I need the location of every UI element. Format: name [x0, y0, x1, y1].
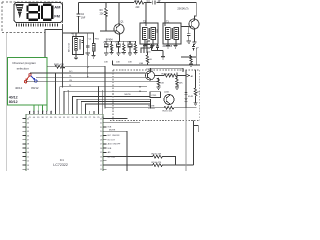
wire Q1 base	[100, 30, 116, 32]
ferrite bead FB1	[92, 44, 95, 52]
resistor R12	[190, 55, 192, 64]
resistor R106	[107, 164, 194, 167]
IC1 left pins	[23, 119, 26, 170]
wire Q2 source	[194, 29, 196, 42]
wire pin20	[107, 131, 128, 171]
svg-text:10K: 10K	[128, 62, 132, 64]
resistor R203	[155, 74, 187, 77]
svg-text:80/12: 80/12	[9, 100, 18, 104]
svg-text:LSB: LSB	[139, 63, 144, 65]
bus vertical dashed-border line	[62, 24, 64, 87]
svg-text:22K: 22K	[100, 13, 105, 15]
corner right top	[194, 126, 199, 133]
dashed display-section border top	[2, 1, 63, 3]
capacitor C6	[156, 44, 159, 51]
wire mute top links	[186, 70, 196, 88]
svg-text:1K: 1K	[197, 92, 200, 94]
transistor Q2	[177, 9, 199, 29]
bus junction dots	[87, 72, 88, 73]
LCD digit 8	[28, 5, 39, 20]
svg-text:LC72322: LC72322	[53, 163, 68, 167]
IC1 top pin names	[29, 111, 53, 114]
LCD display outline	[14, 3, 63, 23]
capacitor C10	[128, 41, 131, 53]
svg-text:AM-7213: AM-7213	[67, 42, 70, 52]
svg-text:R401 47K: R401 47K	[54, 64, 65, 66]
LCD digit 0	[42, 5, 52, 20]
capacitor C1	[86, 33, 90, 53]
svg-text:R201 10K: R201 10K	[163, 110, 173, 112]
svg-text:M.B: M.B	[108, 127, 112, 129]
green wires to IC pins	[34, 105, 47, 111]
transformer T1	[67, 33, 83, 55]
resistor R204	[157, 78, 160, 87]
T3 grounds	[168, 40, 176, 46]
svg-text:1NF: 1NF	[81, 17, 86, 19]
LCD pin comb	[17, 23, 58, 26]
dashed display-section border right	[62, 2, 64, 24]
T1 ground	[75, 50, 77, 57]
resistor R202	[194, 88, 197, 103]
svg-text:4P: 4P	[158, 1, 161, 3]
IC1 right pins	[103, 119, 107, 170]
wire T3 to Q2 gate	[181, 26, 191, 28]
T2 grounds	[145, 40, 153, 46]
svg-text:R203 220K: R203 220K	[162, 73, 173, 75]
wire T2 primary top	[145, 3, 147, 27]
IF cluster top rail	[104, 40, 136, 42]
svg-text:KI4: KI4	[42, 111, 44, 114]
svg-text:selection: selection	[17, 66, 29, 70]
ground	[104, 53, 108, 55]
LCD signal-strength wedge	[16, 4, 23, 16]
svg-text:4148: 4148	[188, 96, 194, 98]
svg-text:10K: 10K	[179, 82, 183, 84]
resistor R105	[107, 155, 176, 165]
bus wire CL	[36, 76, 146, 78]
IC1 top pins	[30, 111, 103, 114]
svg-text:KI6: KI6	[51, 111, 53, 114]
svg-text:M.B: M.B	[108, 148, 112, 150]
svg-text:MUTE: MUTE	[125, 94, 132, 96]
svg-text:AM: AM	[54, 4, 61, 9]
svg-text:KI2: KI2	[34, 111, 36, 114]
svg-text:CE: CE	[69, 80, 73, 82]
svg-text:40/12: 40/12	[9, 96, 18, 100]
diode D201	[185, 88, 187, 108]
bus wire DO	[30, 72, 146, 74]
svg-text:R106 47K: R106 47K	[152, 162, 162, 164]
svg-text:10K: 10K	[104, 62, 108, 64]
svg-text:Q201: Q201	[164, 92, 170, 94]
wire Q1 emitter	[119, 34, 121, 41]
switch red arm to 40/12	[26, 76, 29, 80]
IC1 LC72322 body	[26, 114, 103, 171]
resistor R10	[134, 41, 136, 52]
transistor Q1	[106, 22, 124, 42]
capacitor C7	[187, 27, 191, 42]
svg-text:KI3: KI3	[38, 111, 40, 114]
gray frame line left	[5, 33, 7, 172]
transistor Q201	[164, 92, 174, 105]
switch contact 80/12	[35, 80, 38, 83]
wire Q3 collector rail	[151, 68, 184, 72]
wire mute rail with resistor R201	[151, 99, 197, 109]
svg-text:Q101: Q101	[146, 69, 152, 71]
capacitor C5	[150, 44, 153, 51]
wire Q1 collector	[118, 3, 120, 25]
bus wire CE	[26, 81, 159, 83]
resistor R3	[105, 3, 108, 32]
bus vertical right	[104, 67, 106, 108]
dashed display-section border left	[1, 2, 3, 33]
vertical wire right B	[193, 121, 195, 166]
svg-text:M. OUT: M. OUT	[108, 139, 116, 141]
capacitor C4	[152, 0, 155, 4]
svg-text:AD: AD	[108, 151, 111, 154]
switch common node	[29, 74, 32, 77]
switch contact 40/12	[24, 80, 27, 83]
svg-text:2SK241(?): 2SK241(?)	[177, 9, 188, 11]
electrolytic C201	[150, 92, 161, 98]
resistor R8	[110, 41, 112, 52]
resistor R205	[176, 73, 179, 87]
dashed display-section border bottom	[2, 32, 45, 34]
bus wire DI	[60, 87, 147, 111]
resistor R4	[134, 1, 144, 4]
off-page arrow A1	[186, 74, 190, 77]
bus vertical from antenna rail	[87, 33, 89, 77]
svg-text:R105 47K: R105 47K	[152, 154, 162, 156]
svg-text:FM: FM	[54, 14, 60, 19]
dashed mute-section border	[110, 70, 200, 121]
wire right edge mid	[181, 48, 200, 65]
capacitor C9b	[192, 44, 195, 51]
top supply wire	[79, 2, 197, 4]
svg-text:80/12: 80/12	[31, 86, 39, 90]
wire pin23	[107, 118, 128, 120]
resistor R11	[146, 52, 149, 66]
nested wires to IC top pins	[73, 97, 151, 111]
wire T3 top	[164, 3, 166, 27]
svg-text:Channel program: Channel program	[12, 61, 36, 65]
capacitor C8	[105, 41, 108, 53]
diode D202	[185, 99, 188, 102]
svg-text:ACK ON/OFF: ACK ON/OFF	[108, 143, 121, 146]
bus vertical from display	[54, 73, 56, 111]
antenna wire T1 rail	[63, 32, 94, 34]
svg-text:C201: C201	[151, 95, 157, 97]
svg-text:40/12: 40/12	[15, 86, 23, 90]
wire Q2 drain	[195, 3, 197, 20]
wire LSB rail	[113, 61, 197, 66]
wire mute rail to IC	[105, 107, 151, 109]
wire display-to-switch	[45, 30, 63, 58]
transformer T3	[163, 21, 182, 48]
capacitor C9	[117, 41, 120, 53]
resistor R9	[123, 41, 125, 52]
svg-text:DO: DO	[69, 71, 73, 73]
wire pin22	[107, 122, 141, 124]
svg-text:10K: 10K	[116, 62, 120, 64]
transformer T2	[140, 21, 158, 44]
svg-text:IC1: IC1	[60, 158, 65, 162]
wire C5/C6 ground	[152, 51, 164, 57]
nested corner wires from T2	[141, 41, 150, 53]
svg-text:KI5: KI5	[47, 111, 49, 114]
transistor Q3	[146, 69, 155, 81]
verticals to IC top pins right	[97, 87, 99, 111]
resistor R401	[47, 65, 105, 68]
vertical wire right A	[185, 108, 187, 171]
bus wire 5	[64, 91, 147, 111]
channel selection green box	[8, 58, 48, 105]
svg-text:B.P. ON/OFF: B.P. ON/OFF	[108, 135, 121, 137]
switch blue arm to 80/12	[31, 76, 35, 80]
svg-text:KI1: KI1	[29, 111, 31, 114]
svg-text:10K: 10K	[160, 82, 164, 84]
capacitor C2	[77, 3, 81, 34]
